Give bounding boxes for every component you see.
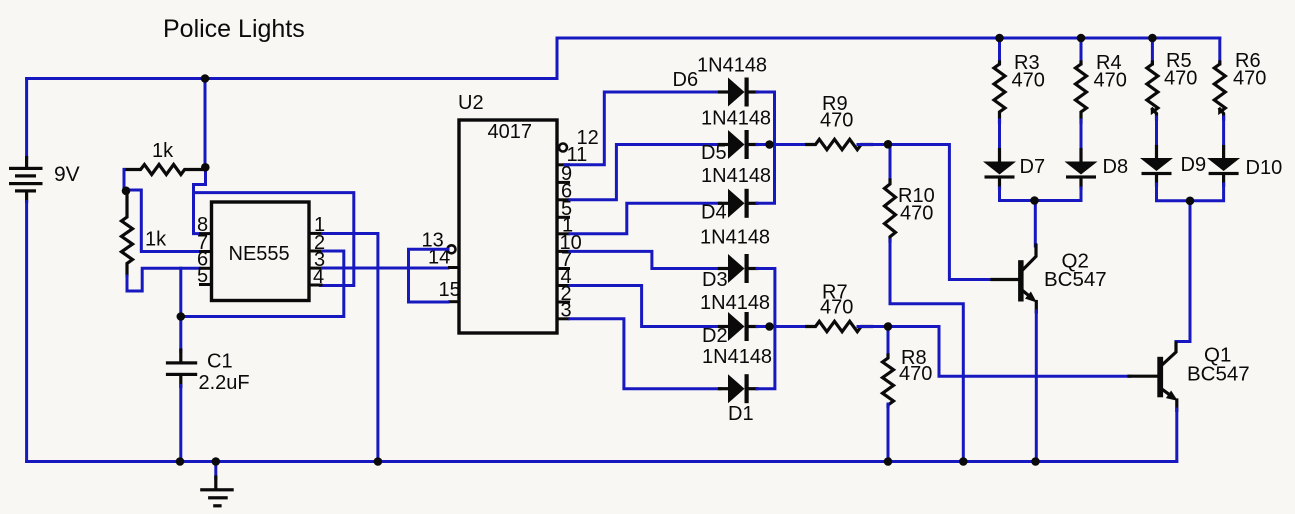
LED D9 [1152, 109, 1156, 119]
svg-text:BC547: BC547 [1187, 363, 1250, 386]
transistor Q1 BC547 [1129, 343, 1178, 411]
wire 555 pin1 to ground rail [323, 234, 378, 462]
pin 7 [557, 267, 570, 270]
wire D6-D4 cathode bus [757, 92, 775, 203]
svg-text:470: 470 [899, 363, 932, 385]
wire vcc to 555 pin4 [194, 193, 354, 286]
node rail R10 dot [959, 457, 968, 466]
node rail R3 dot [995, 34, 1004, 43]
svg-text:470: 470 [1094, 70, 1127, 92]
node rail R5 dot [1148, 34, 1157, 43]
IC U2 4017 box [459, 120, 557, 333]
pin 11 [557, 163, 570, 166]
node rail R4 dot [1077, 34, 1086, 43]
svg-text:470: 470 [900, 203, 933, 225]
wire R7 to Q1 base [858, 327, 1130, 377]
node D7D8 dot [1030, 196, 1039, 205]
wire D9 D10 join [1157, 184, 1224, 201]
resistor R10 470 [889, 145, 892, 183]
battery BT 9V [25, 79, 28, 158]
wire vcc drop x205 [204, 79, 207, 169]
pin 1 [309, 232, 323, 235]
node R7 right dot [884, 322, 893, 331]
svg-text:D5: D5 [701, 142, 727, 164]
svg-text:D2: D2 [702, 325, 728, 347]
resistor R4 470 [1080, 38, 1083, 64]
resistor R horizontal 1k [125, 165, 202, 175]
svg-text:D1: D1 [728, 403, 754, 425]
node 1k junction dot [122, 187, 131, 196]
resistor R7 470 [807, 321, 872, 331]
wire Q2 collector [1034, 201, 1037, 247]
pin 2 [557, 301, 570, 304]
wire riser x557 [556, 38, 559, 79]
svg-text:1N4148: 1N4148 [701, 165, 771, 187]
diode D4 1N4148 [720, 189, 758, 218]
node D9D10 dot [1186, 197, 1195, 206]
wire Q1 emitter to rail [1175, 409, 1178, 462]
wire 4017 pin11 to D6 [565, 92, 720, 165]
svg-text:1N4148: 1N4148 [702, 346, 772, 368]
svg-text:1N4148: 1N4148 [700, 292, 770, 314]
pin 14 [448, 266, 459, 269]
resistor R vertical 1k [122, 190, 133, 275]
resistor R9 470 [807, 139, 872, 149]
wire 4017 pin3 to D1 [570, 319, 720, 389]
ground [200, 462, 234, 508]
wire D7 D8 join [1000, 188, 1082, 201]
wire Q2 emitter to rail [1035, 311, 1038, 462]
wire 555 pin2 trigger net [181, 251, 344, 317]
node rail gnd dot [212, 457, 221, 466]
diode D2 1N4148 [720, 312, 758, 341]
pin 10 [557, 250, 570, 253]
wire R10 bottom to ground rail [890, 240, 963, 462]
pin 13 bubble [448, 245, 456, 253]
pin 6 [557, 198, 570, 201]
wire D3-D1 cathode bus [757, 269, 775, 389]
node D2 bus dot [765, 322, 774, 331]
wire C1 bottom [179, 386, 182, 462]
wire Q1 collector [1176, 201, 1190, 344]
capacitor C1 2.2uF [179, 350, 182, 361]
svg-text:D3: D3 [702, 269, 728, 291]
wire top rail left y78 [27, 77, 557, 80]
svg-text:D4: D4 [701, 202, 727, 224]
resistor R8 470 [887, 327, 890, 358]
wire 4017 pin1 to D4 [570, 203, 720, 234]
wire 4017 pin4 to D2 [570, 286, 720, 327]
wire R8 bottom to rail [887, 404, 890, 462]
svg-text:9V: 9V [54, 163, 80, 186]
node R9 right dot [884, 140, 893, 149]
svg-text:4017: 4017 [488, 121, 533, 143]
svg-text:D9: D9 [1181, 154, 1207, 176]
svg-text:1k: 1k [145, 229, 167, 251]
pin 5 [199, 283, 212, 286]
pin 9 [557, 181, 570, 184]
pin 3 [557, 317, 570, 320]
svg-text:1N4148: 1N4148 [697, 55, 767, 77]
transistor Q2 BC547 [992, 245, 1037, 312]
node rail R8 dot [884, 457, 893, 466]
wire pin7 net [125, 190, 200, 252]
svg-text:470: 470 [1233, 68, 1266, 90]
resistor R3 470 [998, 38, 1001, 64]
wire D2 cathode to R7 [757, 325, 810, 328]
svg-text:NE555: NE555 [229, 243, 290, 265]
svg-text:1k: 1k [152, 140, 174, 162]
wire D5 cathode to R9 [757, 143, 806, 146]
svg-text:470: 470 [820, 297, 853, 319]
svg-text:D6: D6 [673, 69, 699, 91]
svg-text:5: 5 [197, 265, 208, 287]
node D5 bus dot [765, 140, 774, 149]
pin 12 bubble [559, 144, 567, 152]
LED D10 [1220, 109, 1224, 119]
resistor R6 470 [1218, 38, 1221, 64]
pin 2 [309, 250, 323, 253]
svg-text:2.2uF: 2.2uF [199, 372, 250, 394]
pin 5 [557, 216, 570, 219]
wire battery bottom [25, 202, 28, 462]
pin 4 [557, 284, 570, 287]
svg-text:1N4148: 1N4148 [701, 108, 771, 130]
wire 4017 pin6 to D5 [570, 145, 720, 200]
svg-text:470: 470 [820, 110, 853, 132]
svg-text:U2: U2 [458, 92, 484, 114]
node rail Q2e dot [1031, 457, 1040, 466]
wire top rail right y38 [557, 37, 1220, 40]
op-amp U1 NE555 box [212, 202, 310, 301]
wire 555 pin3 to 4017 pin14 [323, 267, 448, 270]
pin 6 [199, 267, 212, 270]
svg-text:D10: D10 [1246, 157, 1283, 179]
pin 15 [448, 300, 459, 303]
svg-text:470: 470 [1164, 68, 1197, 90]
wire 4017 pin13-pin15 loop [409, 249, 449, 302]
diode D3 1N4148 [720, 254, 758, 283]
LED D8 [1080, 120, 1083, 151]
pin 8 [199, 232, 212, 235]
pin 4 [309, 284, 323, 287]
resistor R5 470 [1151, 38, 1154, 64]
wire vcc step to pin8 [194, 169, 206, 234]
svg-text:15: 15 [439, 279, 461, 301]
LED D7 [998, 120, 1001, 151]
node trigger dot [177, 312, 186, 321]
wire bottom ground rail [27, 460, 1177, 463]
node top rail dot [201, 74, 210, 83]
node vcc 1k dot [201, 163, 210, 172]
wire 1k bottom to pin6 [127, 268, 200, 291]
svg-text:D7: D7 [1020, 156, 1046, 178]
svg-text:1N4148: 1N4148 [700, 227, 770, 249]
pin 3 [309, 267, 323, 270]
diode D6 1N4148 [720, 78, 758, 107]
svg-text:Police Lights: Police Lights [163, 15, 305, 43]
pin 7 [199, 250, 212, 253]
wire R9 to Q2 base [858, 145, 993, 280]
node rail C1 dot [176, 457, 185, 466]
diode D5 1N4148 [720, 130, 758, 159]
pin 1 [557, 232, 570, 235]
wire 1k left lead down [123, 170, 126, 191]
svg-text:C1: C1 [207, 351, 233, 373]
diode D1 1N4148 [720, 374, 758, 403]
svg-text:470: 470 [1012, 70, 1045, 92]
svg-text:BC547: BC547 [1044, 268, 1107, 291]
node rail 555pin1 dot [374, 457, 383, 466]
wire C1 top vertical [179, 268, 182, 351]
wire 4017 pin10 to D3 [570, 251, 720, 268]
svg-text:D8: D8 [1103, 156, 1129, 178]
